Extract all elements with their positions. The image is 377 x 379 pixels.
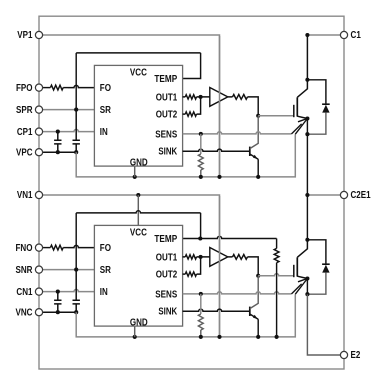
resistor R-gate <box>233 255 248 260</box>
junction sense-rail <box>199 335 203 339</box>
wire OUT1 row <box>183 96 210 98</box>
svg-text:SENS: SENS <box>155 129 177 140</box>
svg-text:IN: IN <box>100 127 108 138</box>
svg-text:VNC: VNC <box>16 307 33 318</box>
wire OUT2 join <box>183 257 201 274</box>
wire sense resistor to rail <box>200 330 202 337</box>
wire SENS row <box>183 124 302 134</box>
wire VNC row <box>39 311 76 313</box>
wire buffer output <box>228 97 258 116</box>
svg-text:GND: GND <box>130 317 148 328</box>
pin label VCC <box>130 68 147 79</box>
junction emitter node <box>305 116 309 120</box>
wire control ground rail <box>76 134 295 177</box>
svg-text:VCC: VCC <box>130 68 147 79</box>
pin label SENS <box>155 129 177 140</box>
node label CP1 <box>17 127 33 138</box>
terminal C2E1 <box>340 191 347 198</box>
wire E2 trunk <box>307 279 344 356</box>
resistor R-sense <box>198 314 203 330</box>
wire C2E1 stub <box>307 194 344 196</box>
IGBT T2 <box>294 240 308 294</box>
resistor R-OUT2 <box>185 272 196 276</box>
junction gate node <box>256 114 260 118</box>
node label C2E1 <box>351 190 372 201</box>
terminal FNO <box>35 244 42 251</box>
wire SPR row <box>39 109 94 111</box>
node label SPR <box>16 105 33 116</box>
wire TEMP feedback loop <box>76 211 200 270</box>
wire NPN emitter to rail <box>257 159 259 177</box>
resistor R-gate <box>233 95 248 100</box>
wire CP1 row <box>39 129 94 131</box>
junction SENS node <box>199 132 203 136</box>
svg-text:GND: GND <box>130 157 148 168</box>
pin label TEMP <box>154 234 177 245</box>
svg-text:TEMP: TEMP <box>154 74 177 85</box>
buffer amplifier A2 <box>210 248 228 267</box>
pin label OUT2 <box>156 110 178 121</box>
svg-text:FO: FO <box>100 243 112 254</box>
pin label GND <box>130 317 148 328</box>
terminal FPO <box>35 84 42 91</box>
wire VP1 vertical <box>219 36 221 177</box>
junction emitter node <box>305 276 309 280</box>
wire FPO row <box>39 85 94 87</box>
svg-text:SNR: SNR <box>16 265 33 276</box>
node label CN1 <box>16 287 33 298</box>
svg-text:IN: IN <box>100 287 108 298</box>
capacitor C-SPR <box>73 110 80 153</box>
junction supply-rail <box>217 175 221 179</box>
transistor Q1 (gate discharge NPN) <box>250 116 258 159</box>
junction collector-diode <box>305 238 309 242</box>
svg-text:FPO: FPO <box>16 83 33 94</box>
svg-text:CP1: CP1 <box>17 127 33 138</box>
wire control ground rail <box>76 294 295 337</box>
wire buffer output <box>228 257 258 276</box>
terminal SPR <box>35 106 42 113</box>
wire VN1 supply rail <box>39 195 220 337</box>
wire sense resistor to rail <box>200 170 202 177</box>
svg-text:FNO: FNO <box>16 243 33 254</box>
wire VN1 vertical <box>219 196 221 337</box>
wire CN1 row <box>39 289 94 291</box>
svg-text:VPC: VPC <box>16 147 33 158</box>
svg-text:TEMP: TEMP <box>154 234 177 245</box>
junction sense-rail <box>199 175 203 179</box>
junction C1 node <box>305 33 309 37</box>
svg-text:VP1: VP1 <box>17 30 33 41</box>
capacitor C-SNR <box>73 270 80 313</box>
node label FPO <box>16 83 33 94</box>
junction SNR node <box>74 268 78 272</box>
svg-text:OUT2: OUT2 <box>156 110 178 121</box>
wire FNO row <box>39 245 94 247</box>
IGBT T1 <box>294 80 308 134</box>
wire SENS to sense resistor <box>200 134 202 154</box>
resistor R-shunt N <box>274 239 279 263</box>
resistor R-OUT1 <box>185 95 196 99</box>
terminal VPC <box>35 149 42 156</box>
resistor R-FPO <box>50 85 63 90</box>
svg-text:OUT2: OUT2 <box>156 270 178 281</box>
svg-text:SINK: SINK <box>158 307 177 318</box>
pin label VCC <box>130 228 147 239</box>
junction SENS node <box>199 292 203 296</box>
node label C1 <box>351 30 362 41</box>
pin label IN <box>100 287 108 298</box>
wire SNR row <box>39 269 94 271</box>
svg-text:VCC: VCC <box>130 228 147 239</box>
gate-driver IC U2 <box>94 225 182 326</box>
wire GND pin <box>134 166 136 177</box>
terminal SNR <box>35 266 42 273</box>
wire gate lead <box>258 274 294 276</box>
wire NPN emitter to rail <box>257 319 259 337</box>
junction VNC node <box>74 310 78 314</box>
wire VPC row <box>39 151 76 153</box>
svg-text:SPR: SPR <box>16 105 33 116</box>
junction GND pin-rail <box>133 335 137 339</box>
pin label SINK <box>158 307 177 318</box>
junction TEMP loop node <box>198 236 202 240</box>
svg-text:SINK: SINK <box>158 147 177 158</box>
node label FNO <box>16 243 33 254</box>
junction cap1-VNC <box>56 310 60 314</box>
terminal E2 <box>340 351 347 358</box>
node label VNC <box>16 307 33 318</box>
junction CN1 node <box>56 290 60 294</box>
diode D1 <box>307 80 329 134</box>
wire VN1 to VCC pin <box>137 195 139 225</box>
terminal CN1 <box>35 288 42 295</box>
junction GND pin-rail <box>133 175 137 179</box>
junction collector-diode <box>305 78 309 82</box>
wire SINK row <box>183 149 250 151</box>
junction NPN-rail <box>256 335 260 339</box>
svg-text:CN1: CN1 <box>16 287 33 298</box>
svg-text:E2: E2 <box>351 350 361 361</box>
wire OUT2 join <box>183 97 201 114</box>
svg-text:C2E1: C2E1 <box>351 190 372 201</box>
resistor R-sense <box>198 154 203 170</box>
wire emitter trunk <box>306 119 308 196</box>
svg-text:VN1: VN1 <box>17 190 33 201</box>
pin label GND <box>130 157 148 168</box>
pin label SENS <box>155 289 177 300</box>
pin label IN <box>100 127 108 138</box>
wire OUT1 row <box>183 256 210 258</box>
junction shunt-rail <box>275 335 279 339</box>
junction NPN-rail <box>256 175 260 179</box>
capacitor C-CP1 <box>54 132 61 153</box>
svg-text:SR: SR <box>100 105 111 116</box>
junction C2E1 node <box>305 193 309 197</box>
pin label SR <box>100 105 111 116</box>
junction cap1-VPC <box>56 150 60 154</box>
junction emitter-diode <box>305 292 309 296</box>
junction emitter-diode <box>305 132 309 136</box>
node label VP1 <box>17 30 33 41</box>
wire VP1 supply rail <box>39 35 220 177</box>
resistor R-FNO <box>50 245 63 250</box>
node label VPC <box>16 147 33 158</box>
node label VN1 <box>17 190 33 201</box>
gate-driver IC U1 <box>94 65 182 166</box>
terminal CP1 <box>35 128 42 135</box>
pin label FO <box>100 83 112 94</box>
diode D2 <box>307 240 329 294</box>
svg-text:FO: FO <box>100 83 112 94</box>
junction supply-rail <box>217 335 221 339</box>
wire GND pin <box>134 326 136 337</box>
junction OUT node <box>199 255 203 259</box>
svg-text:C1: C1 <box>351 30 362 41</box>
wire gate lead <box>258 115 294 117</box>
capacitor C-CN1 <box>54 292 61 313</box>
pin label FO <box>100 243 112 254</box>
node label SNR <box>16 265 33 276</box>
terminal VP1 <box>35 31 42 38</box>
wire SENS to sense resistor <box>200 294 202 314</box>
resistor R-OUT2 <box>185 112 196 116</box>
wire TEMP row extension <box>200 236 276 238</box>
pin label OUT1 <box>156 252 178 263</box>
svg-text:SENS: SENS <box>155 289 177 300</box>
junction VCC tap on VN1 rail <box>136 193 140 197</box>
node label E2 <box>351 350 361 361</box>
terminal C1 <box>340 31 347 38</box>
svg-text:OUT1: OUT1 <box>156 252 178 263</box>
wire C1 stub <box>307 34 344 36</box>
wire C1 trunk <box>306 35 308 80</box>
pin label OUT1 <box>156 92 178 103</box>
pin label SINK <box>158 147 177 158</box>
wire C2 trunk <box>306 195 308 240</box>
svg-text:SR: SR <box>100 265 111 276</box>
buffer amplifier A1 <box>210 88 228 107</box>
terminal VNC <box>35 309 42 316</box>
junction VPC node <box>74 150 78 154</box>
module outline frame <box>39 16 344 369</box>
junction CP1 node <box>56 130 60 134</box>
wire shunt resistor to rail <box>276 263 278 337</box>
terminal VN1 <box>35 191 42 198</box>
pin label OUT2 <box>156 270 178 281</box>
pin label SR <box>100 265 111 276</box>
wire SENS row <box>183 284 302 294</box>
transistor Q2 (gate discharge NPN) <box>250 276 258 319</box>
wire SINK row <box>183 309 250 311</box>
svg-text:OUT1: OUT1 <box>156 92 178 103</box>
junction SPR node <box>74 108 78 112</box>
resistor R-OUT1 <box>185 255 196 259</box>
junction gate node <box>256 274 260 278</box>
junction OUT node <box>199 95 203 99</box>
wire TEMP feedback loop <box>76 53 200 110</box>
pin label TEMP <box>154 74 177 85</box>
